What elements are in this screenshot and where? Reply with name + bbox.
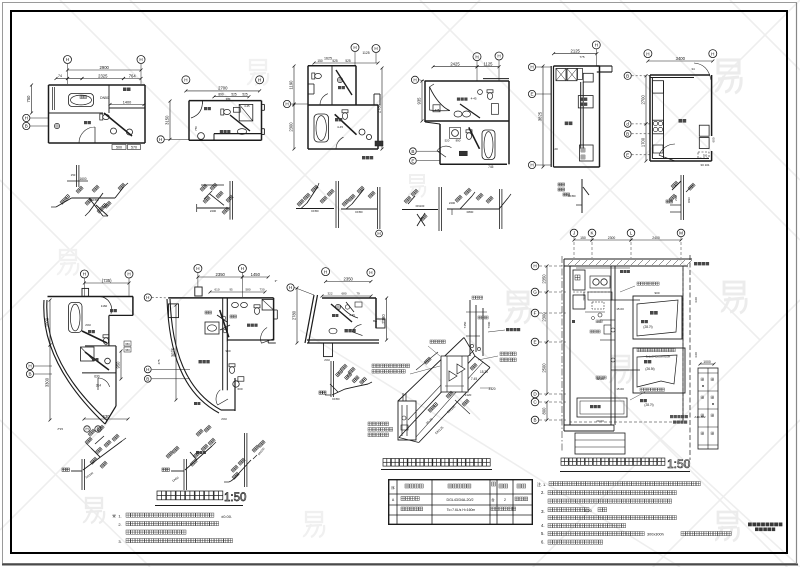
- svg-text:1000: 1000: [45, 317, 50, 327]
- svg-text:15.20: 15.20: [480, 370, 488, 374]
- svg-text:900: 900: [225, 349, 230, 353]
- svg-text:C: C: [533, 400, 537, 405]
- svg-text:H: H: [146, 295, 149, 300]
- svg-text:H: H: [530, 163, 533, 168]
- svg-text:台: 台: [491, 497, 495, 502]
- svg-text:H: H: [85, 427, 88, 432]
- svg-text:900: 900: [654, 291, 659, 295]
- svg-text:DN50: DN50: [171, 475, 180, 483]
- svg-text:7.45: 7.45: [471, 377, 477, 381]
- svg-text:4-45: 4-45: [349, 313, 355, 317]
- svg-text:300: 300: [703, 154, 708, 158]
- svg-text:L: L: [630, 231, 633, 236]
- svg-text:1625: 1625: [324, 57, 332, 61]
- svg-text:3825: 3825: [538, 111, 543, 121]
- svg-text:79: 79: [356, 292, 360, 296]
- svg-text:1190: 1190: [289, 80, 294, 90]
- svg-text:2500: 2500: [542, 363, 547, 373]
- svg-text:H: H: [353, 45, 356, 50]
- svg-text:B: B: [626, 132, 629, 137]
- svg-text:2.: 2.: [118, 522, 121, 527]
- svg-text:DN50: DN50: [568, 194, 576, 198]
- svg-text:D: D: [533, 392, 537, 397]
- svg-text:2300: 2300: [289, 122, 294, 132]
- svg-text:H: H: [497, 54, 500, 59]
- svg-text:935: 935: [417, 97, 422, 105]
- svg-text:4.00: 4.00: [694, 352, 698, 358]
- svg-text:2700: 2700: [218, 86, 228, 91]
- svg-text:H: H: [83, 272, 86, 277]
- svg-text:525: 525: [332, 59, 338, 63]
- svg-text:H: H: [595, 43, 598, 48]
- svg-text:H: H: [159, 137, 162, 142]
- svg-text:2400: 2400: [652, 236, 660, 240]
- svg-text:E: E: [626, 153, 629, 158]
- svg-text:2325: 2325: [98, 73, 108, 78]
- svg-text:(28.7t): (28.7t): [643, 325, 652, 329]
- svg-text:H: H: [369, 270, 372, 275]
- svg-text:2300: 2300: [542, 312, 547, 322]
- svg-text:H: H: [374, 46, 377, 51]
- svg-text:750: 750: [26, 95, 31, 103]
- svg-text:H: H: [146, 367, 149, 372]
- svg-text:15.00: 15.00: [616, 307, 624, 311]
- svg-text:3*: 3*: [275, 279, 279, 283]
- svg-text:E: E: [533, 340, 536, 345]
- svg-text:570: 570: [131, 146, 137, 150]
- svg-text:890: 890: [218, 93, 224, 97]
- svg-text:0800: 0800: [467, 210, 474, 214]
- svg-text:4.00: 4.00: [694, 297, 698, 303]
- svg-text:15.00: 15.00: [616, 387, 624, 391]
- svg-text:3xLo0=Do0xAxo0h: 3xLo0=Do0xAxo0h: [646, 355, 671, 359]
- svg-text:E: E: [411, 158, 414, 163]
- svg-text:H: H: [196, 266, 199, 271]
- svg-text:7600: 7600: [487, 321, 491, 328]
- svg-text:2780: 2780: [377, 103, 382, 113]
- svg-text:DN100: DN100: [446, 404, 456, 414]
- svg-text:B: B: [146, 377, 149, 382]
- svg-text:2400: 2400: [449, 201, 456, 205]
- svg-text:G: G: [533, 290, 537, 295]
- svg-text:F: F: [534, 311, 537, 316]
- svg-text:2%0: 2%0: [674, 195, 678, 201]
- svg-text:3.20: 3.20: [584, 508, 593, 513]
- svg-text:525: 525: [345, 59, 351, 63]
- svg-text:150: 150: [317, 59, 323, 63]
- svg-text:H: H: [377, 231, 380, 236]
- svg-text:H: H: [139, 57, 142, 62]
- svg-text:H: H: [646, 51, 649, 56]
- svg-text:H: H: [184, 78, 187, 83]
- svg-text:H: H: [711, 51, 714, 56]
- svg-text:3075: 3075: [171, 347, 176, 357]
- svg-text:DN100: DN100: [257, 446, 266, 456]
- svg-text:4.45: 4.45: [244, 104, 250, 108]
- svg-text:3400: 3400: [676, 56, 686, 61]
- svg-text:650: 650: [125, 342, 130, 346]
- svg-text:H: H: [258, 78, 261, 83]
- svg-text:680: 680: [341, 292, 346, 296]
- svg-text:74: 74: [58, 74, 62, 78]
- svg-text:600: 600: [712, 137, 716, 142]
- svg-text:1700: 1700: [641, 137, 646, 147]
- svg-text:950: 950: [116, 361, 121, 369]
- svg-text:520: 520: [445, 139, 450, 143]
- svg-text:BA: BA: [373, 319, 377, 323]
- svg-text:2%0: 2%0: [324, 358, 330, 362]
- svg-text:B: B: [411, 149, 414, 154]
- svg-text:890: 890: [456, 139, 461, 143]
- svg-text:H: H: [530, 65, 533, 70]
- svg-text:DN50: DN50: [100, 96, 109, 100]
- svg-text:3.: 3.: [118, 539, 121, 544]
- svg-text:4-45: 4-45: [337, 125, 343, 129]
- svg-text:DN100: DN100: [85, 471, 95, 480]
- svg-text:764: 764: [129, 73, 137, 78]
- svg-text:B: B: [28, 372, 31, 377]
- svg-text:(26.5t): (26.5t): [645, 367, 654, 371]
- svg-text:3120: 3120: [488, 387, 495, 391]
- svg-text:DN6: DN6: [687, 197, 691, 203]
- svg-text:800: 800: [542, 407, 547, 415]
- svg-text:2%0: 2%0: [221, 417, 227, 421]
- svg-text:A: A: [392, 498, 395, 502]
- svg-text:34: 34: [691, 67, 695, 71]
- svg-text:(735): (735): [102, 278, 112, 283]
- svg-text:610: 610: [214, 288, 219, 292]
- svg-text:1000: 1000: [703, 360, 711, 364]
- svg-text:2350: 2350: [216, 272, 226, 277]
- svg-text:2425: 2425: [450, 62, 460, 67]
- svg-text:2350: 2350: [344, 276, 354, 281]
- svg-text:H: H: [475, 54, 478, 59]
- svg-text:950: 950: [125, 348, 130, 352]
- svg-text:322: 322: [327, 292, 332, 296]
- svg-text:5.: 5.: [541, 531, 545, 536]
- svg-text:300x300h: 300x300h: [647, 532, 664, 536]
- svg-text:2.: 2.: [541, 490, 545, 495]
- svg-text:150: 150: [580, 236, 586, 240]
- svg-text:DN125: DN125: [434, 425, 444, 435]
- svg-text:2900: 2900: [100, 65, 110, 70]
- svg-text:6.: 6.: [541, 540, 545, 545]
- svg-text:DN50: DN50: [311, 209, 319, 213]
- svg-text:2700: 2700: [641, 95, 646, 105]
- svg-text:3300: 3300: [45, 377, 50, 387]
- svg-text:20: 20: [554, 147, 558, 151]
- svg-text:730: 730: [259, 288, 264, 292]
- svg-text:Tc=7.6L/s H=160m: Tc=7.6L/s H=160m: [447, 508, 476, 512]
- svg-text:1.: 1.: [118, 514, 121, 519]
- svg-text:525: 525: [231, 93, 237, 97]
- svg-text:H: H: [241, 266, 244, 271]
- svg-text:3.: 3.: [541, 509, 545, 514]
- svg-text:B: B: [626, 74, 629, 79]
- svg-text:745: 745: [488, 165, 494, 169]
- svg-text:DN50: DN50: [91, 198, 99, 202]
- svg-text:J*15: J*15: [57, 427, 63, 431]
- svg-text:2400: 2400: [210, 209, 217, 213]
- svg-text:B: B: [533, 418, 536, 423]
- svg-text:1125: 1125: [362, 51, 369, 55]
- svg-text:A19.882: A19.882: [694, 415, 706, 419]
- svg-text:475: 475: [157, 359, 161, 364]
- svg-text:3150: 3150: [165, 115, 170, 125]
- svg-text:1450: 1450: [251, 272, 261, 277]
- svg-text:1:50: 1:50: [224, 492, 246, 504]
- svg-text:4.: 4.: [541, 523, 545, 528]
- svg-text:※: ※: [112, 514, 116, 520]
- svg-text:2780: 2780: [292, 310, 297, 320]
- svg-text:1:50: 1:50: [667, 457, 691, 471]
- svg-text:2380: 2380: [381, 314, 386, 324]
- svg-text:E: E: [530, 92, 533, 97]
- svg-text:K: K: [590, 231, 594, 236]
- svg-text:95: 95: [229, 288, 233, 292]
- svg-text:750: 750: [194, 126, 198, 131]
- svg-text:7450: 7450: [463, 321, 467, 328]
- svg-text:1400: 1400: [123, 100, 131, 104]
- svg-text:H: H: [413, 78, 416, 83]
- svg-text:600: 600: [237, 387, 242, 391]
- svg-text:H: H: [66, 57, 69, 62]
- svg-text:H: H: [25, 116, 28, 121]
- svg-text:M: M: [679, 231, 683, 236]
- svg-text:2300: 2300: [608, 236, 616, 240]
- svg-text:H: H: [127, 272, 130, 277]
- svg-text:42.00: 42.00: [596, 377, 604, 381]
- svg-text:525: 525: [242, 93, 248, 97]
- svg-text:314: 314: [96, 383, 102, 387]
- svg-text:580: 580: [245, 288, 250, 292]
- svg-text:775: 775: [579, 55, 584, 59]
- svg-text:20.00: 20.00: [596, 419, 604, 423]
- svg-text:H: H: [28, 364, 31, 369]
- svg-text:H: H: [289, 285, 292, 290]
- svg-text:DN100: DN100: [416, 204, 425, 208]
- svg-text:2350: 2350: [542, 274, 547, 284]
- svg-text:1160: 1160: [101, 304, 108, 308]
- svg-text:2125: 2125: [571, 48, 581, 53]
- svg-text:4-45: 4-45: [471, 97, 477, 101]
- svg-text:B: B: [25, 124, 28, 129]
- svg-text:2%0: 2%0: [85, 323, 91, 327]
- svg-text:150: 150: [71, 173, 76, 177]
- svg-text:J: J: [573, 231, 575, 236]
- svg-text:478: 478: [435, 108, 440, 112]
- svg-text:1600: 1600: [79, 177, 86, 181]
- svg-text:30 101: 30 101: [700, 163, 710, 167]
- svg-text:±0.00.: ±0.00.: [221, 514, 232, 519]
- svg-text:H: H: [533, 264, 536, 269]
- svg-text:2: 2: [504, 498, 506, 502]
- svg-text:H: H: [324, 269, 327, 274]
- svg-text:500: 500: [116, 146, 122, 150]
- svg-text:1125: 1125: [483, 62, 493, 67]
- svg-text:1.: 1.: [543, 482, 546, 487]
- svg-text:DN50: DN50: [355, 210, 363, 214]
- svg-text:(28.7t): (28.7t): [644, 403, 653, 407]
- svg-text:630: 630: [103, 414, 111, 419]
- svg-text:注.: 注.: [537, 481, 542, 487]
- svg-text:DN50: DN50: [332, 397, 340, 401]
- svg-text:3120: 3120: [465, 393, 472, 397]
- svg-text:d: d: [626, 122, 629, 127]
- svg-text:630: 630: [94, 374, 100, 378]
- svg-text:DGL43/34A-20/2: DGL43/34A-20/2: [447, 498, 474, 502]
- svg-text:序: 序: [391, 485, 395, 490]
- svg-text:H: H: [285, 102, 288, 107]
- svg-text:DN100: DN100: [582, 291, 586, 300]
